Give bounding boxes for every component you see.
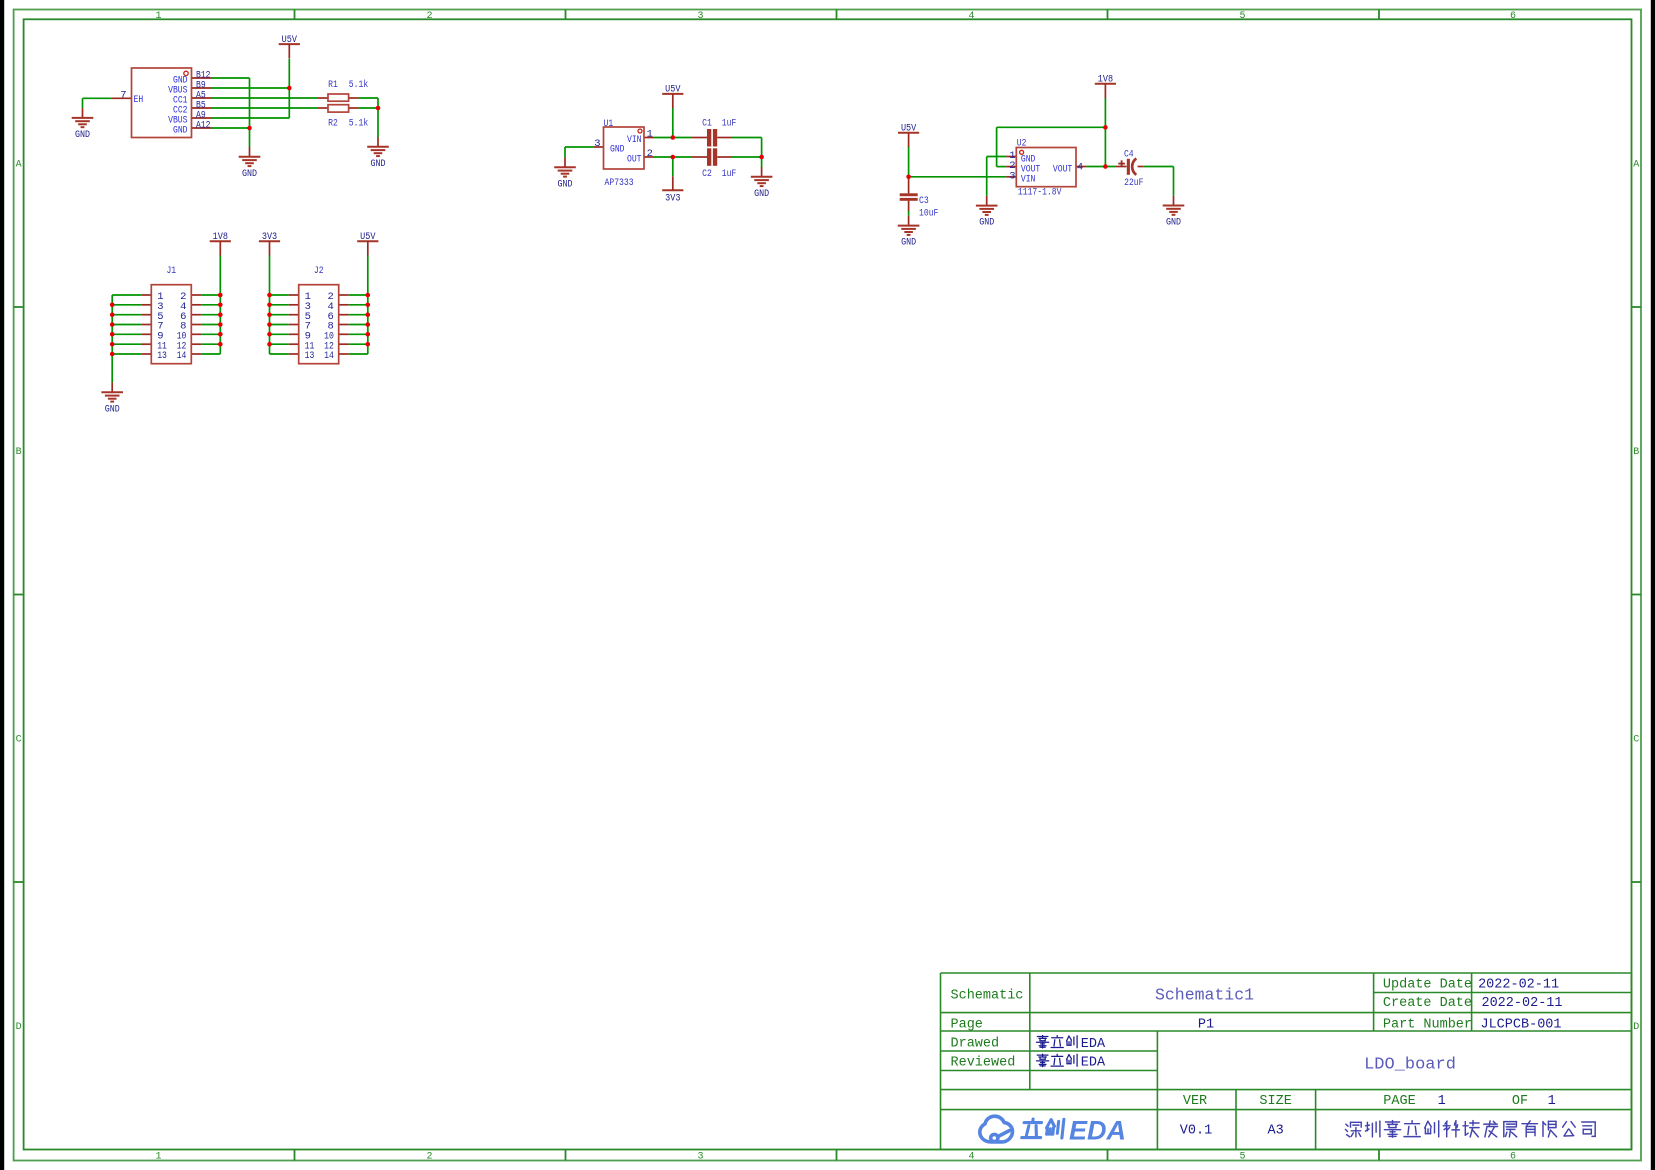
- svg-text:5.1k: 5.1k: [349, 79, 368, 91]
- svg-text:2022-02-11: 2022-02-11: [1478, 978, 1559, 993]
- svg-text:1: 1: [1438, 1094, 1446, 1109]
- svg-text:Page: Page: [951, 1017, 983, 1032]
- svg-text:OUT: OUT: [627, 154, 642, 166]
- svg-text:C: C: [16, 735, 22, 746]
- svg-text:Reviewed: Reviewed: [951, 1055, 1016, 1070]
- svg-text:GND: GND: [558, 178, 573, 190]
- svg-text:1: 1: [1548, 1094, 1556, 1109]
- svg-text:3: 3: [594, 138, 600, 150]
- svg-text:U5V: U5V: [901, 123, 917, 135]
- svg-text:VIN: VIN: [1021, 173, 1036, 185]
- svg-text:U5V: U5V: [665, 84, 681, 96]
- svg-text:VIN: VIN: [627, 134, 642, 146]
- svg-text:B: B: [16, 447, 22, 458]
- svg-text:1: 1: [155, 1152, 161, 1163]
- svg-text:1: 1: [155, 11, 161, 22]
- svg-text:A3: A3: [1267, 1124, 1283, 1139]
- svg-text:2: 2: [426, 11, 432, 22]
- svg-text:6: 6: [1510, 11, 1516, 22]
- svg-text:JLCPCB-001: JLCPCB-001: [1480, 1017, 1561, 1032]
- svg-text:14: 14: [177, 350, 187, 362]
- svg-text:GND: GND: [610, 144, 625, 156]
- svg-text:C2: C2: [702, 168, 712, 180]
- svg-text:GND: GND: [371, 158, 386, 170]
- svg-text:3V3: 3V3: [665, 193, 680, 205]
- svg-text:7: 7: [120, 90, 126, 102]
- svg-text:U1: U1: [604, 118, 614, 130]
- svg-text:2: 2: [426, 1152, 432, 1163]
- svg-text:GND: GND: [1166, 217, 1181, 229]
- svg-text:1V8: 1V8: [1098, 74, 1113, 86]
- svg-text:VOUT: VOUT: [1053, 164, 1072, 176]
- svg-text:10uF: 10uF: [919, 208, 938, 220]
- svg-text:14: 14: [324, 350, 334, 362]
- svg-text:VER: VER: [1183, 1094, 1207, 1109]
- svg-text:6: 6: [1510, 1152, 1516, 1163]
- svg-text:EH: EH: [134, 94, 144, 106]
- svg-text:Schematic1: Schematic1: [1155, 985, 1254, 1004]
- svg-text:U5V: U5V: [282, 34, 298, 46]
- svg-text:A: A: [16, 160, 22, 171]
- svg-text:3V3: 3V3: [262, 231, 277, 243]
- svg-text:1uF: 1uF: [722, 168, 737, 180]
- svg-text:13: 13: [157, 350, 167, 362]
- svg-text:C3: C3: [919, 195, 929, 207]
- svg-text:EDA: EDA: [1081, 1037, 1106, 1052]
- svg-text:4: 4: [968, 11, 974, 22]
- svg-text:GND: GND: [173, 125, 188, 137]
- svg-text:AP7333: AP7333: [605, 177, 634, 189]
- svg-text:5: 5: [1239, 11, 1245, 22]
- svg-text:GND: GND: [75, 129, 90, 141]
- svg-text:1: 1: [647, 129, 653, 141]
- svg-text:5.1k: 5.1k: [349, 117, 368, 129]
- svg-text:GND: GND: [901, 237, 916, 249]
- svg-text:Drawed: Drawed: [951, 1037, 1000, 1052]
- svg-text:22uF: 22uF: [1124, 177, 1143, 189]
- svg-text:C: C: [1633, 735, 1639, 746]
- svg-text:A: A: [1633, 160, 1639, 171]
- svg-text:U5V: U5V: [360, 231, 376, 243]
- svg-text:R2: R2: [328, 117, 338, 129]
- svg-text:V0.1: V0.1: [1180, 1124, 1212, 1139]
- svg-text:GND: GND: [105, 403, 120, 415]
- svg-text:GND: GND: [979, 217, 994, 229]
- svg-text:GND: GND: [242, 168, 257, 180]
- svg-text:Part Number: Part Number: [1383, 1017, 1472, 1032]
- svg-text:5: 5: [1239, 1152, 1245, 1163]
- svg-text:A12: A12: [196, 120, 211, 132]
- svg-text:4: 4: [1077, 162, 1083, 174]
- svg-text:B: B: [1633, 447, 1639, 458]
- svg-text:EDA: EDA: [1081, 1055, 1106, 1070]
- svg-text:OF: OF: [1512, 1094, 1528, 1109]
- svg-text:3: 3: [697, 1152, 703, 1163]
- svg-text:1uF: 1uF: [722, 117, 737, 129]
- svg-text:J1: J1: [166, 265, 176, 277]
- svg-text:3: 3: [1009, 170, 1015, 182]
- svg-text:D: D: [16, 1022, 22, 1033]
- svg-text:3: 3: [697, 11, 703, 22]
- svg-text:SIZE: SIZE: [1259, 1094, 1291, 1109]
- svg-text:4: 4: [968, 1152, 974, 1163]
- svg-text:C1: C1: [702, 117, 712, 129]
- svg-text:PAGE: PAGE: [1383, 1094, 1415, 1109]
- svg-text:D: D: [1633, 1022, 1639, 1033]
- svg-text:2022-02-11: 2022-02-11: [1481, 996, 1562, 1011]
- svg-text:GND: GND: [754, 188, 769, 200]
- svg-text:LDO_board: LDO_board: [1364, 1056, 1456, 1075]
- svg-text:J2: J2: [314, 265, 324, 277]
- svg-text:P1: P1: [1198, 1017, 1214, 1032]
- svg-text:1117-1.8V: 1117-1.8V: [1018, 186, 1062, 198]
- svg-text:2: 2: [647, 148, 653, 160]
- svg-text:Create Date: Create Date: [1383, 996, 1472, 1011]
- svg-text:R1: R1: [328, 79, 338, 91]
- svg-text:1V8: 1V8: [213, 231, 228, 243]
- svg-text:EDA: EDA: [1069, 1116, 1126, 1146]
- svg-text:Update Date: Update Date: [1383, 978, 1472, 993]
- svg-text:C4: C4: [1124, 148, 1134, 160]
- svg-text:U2: U2: [1017, 137, 1027, 149]
- svg-text:13: 13: [305, 350, 315, 362]
- svg-text:Schematic: Schematic: [951, 988, 1024, 1003]
